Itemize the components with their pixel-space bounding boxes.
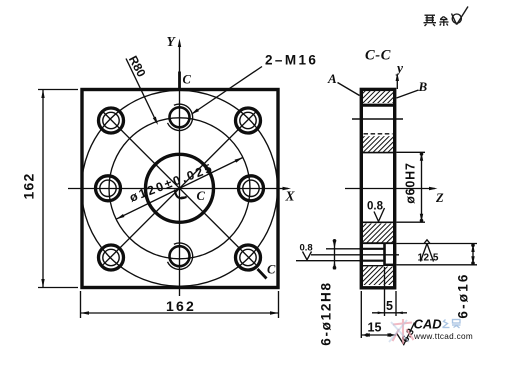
counterbore bottom edge [385, 264, 395, 266]
hanzi YU (余) [440, 17, 449, 27]
threaded hole M16 bottom [168, 243, 193, 269]
hanzi QI (其) [424, 15, 437, 26]
dimension 6-dia16: dimension line [472, 244, 474, 265]
watermark logo pink [393, 319, 414, 344]
diagonal centerline SW-NE [103, 112, 256, 265]
dimension 162 left: dimension line [42, 90, 44, 288]
leader R80 [126, 59, 157, 124]
M16 hole bottom thick line [361, 104, 395, 107]
svg-text:6-ø12H8: 6-ø12H8 [319, 281, 334, 345]
dimension dia60H7: extension lines [396, 151, 425, 153]
label B leader [397, 90, 419, 98]
X axis arrowhead [283, 187, 292, 190]
dimension dia60H7: dimension line [421, 152, 423, 222]
svg-text:C: C [267, 263, 276, 277]
svg-text:y: y [395, 61, 404, 76]
counterbored hole right [239, 176, 264, 201]
M16 hole centerline [352, 118, 403, 120]
watermark zhi-jia glyphs [443, 320, 461, 329]
hatch band bottom [363, 267, 393, 286]
hatch band top [363, 91, 393, 103]
hole dia12 edge extension line upper [326, 248, 361, 250]
hole dia12 edge extension line lower [296, 260, 361, 262]
label A leader [338, 83, 360, 96]
thread dashed line [364, 133, 393, 135]
svg-text:162: 162 [21, 173, 37, 200]
svg-text:0.8: 0.8 [367, 201, 384, 213]
plate outline square 162x162 [82, 90, 278, 288]
svg-text:5: 5 [386, 299, 393, 313]
svg-text:CAD: CAD [414, 317, 443, 332]
hole dia12 top edge [360, 248, 385, 250]
hatch boundary below hole [363, 265, 385, 267]
counterbore step vertical [383, 243, 386, 265]
dimension 15: dimension line [361, 334, 396, 336]
roughness 12.5 [424, 240, 430, 244]
roughness 6.3 rotated [397, 323, 415, 345]
svg-text:6-ø16: 6-ø16 [456, 272, 471, 318]
dimension 162 bottom: extension lines [80, 291, 82, 318]
counterbored hole bottom-right [236, 245, 261, 270]
counterbore top boundary [363, 242, 393, 244]
svg-text:X: X [285, 189, 296, 204]
svg-text:162: 162 [166, 298, 196, 314]
hole dia12 centerline [311, 254, 399, 256]
counterbored hole bottom-left [99, 245, 124, 270]
Y axis arrowhead [178, 39, 181, 48]
hatch band below bore [363, 224, 393, 243]
Z axis [345, 188, 435, 190]
bottom extension line step [384, 267, 386, 316]
circle dia 120 [109, 118, 250, 259]
threaded hole M16 top [168, 104, 193, 130]
hole dia12 bottom edge [360, 260, 385, 262]
y axis of section [396, 75, 398, 89]
svg-text:www.ttcad.com: www.ttcad.com [413, 332, 473, 341]
counterbored hole left [96, 176, 121, 201]
counterbored hole top-right [236, 108, 261, 133]
section turn curved arrow at center [175, 190, 187, 199]
bottom extension line left face [360, 291, 362, 338]
bore bottom edge [363, 221, 393, 223]
bolt circle R80 [82, 90, 278, 286]
bottom extension line right face [395, 291, 397, 316]
diagonal centerline NW-SE [103, 112, 256, 265]
roughness symbol circle-check [452, 7, 469, 25]
horizontal centerline / X axis [68, 188, 288, 190]
dimension 5: dimension line [372, 312, 407, 314]
bore top edge [363, 152, 393, 154]
svg-text:12.5: 12.5 [418, 253, 439, 264]
svg-text:B: B [418, 79, 428, 94]
section mark C top tick [178, 72, 181, 89]
vertical centerline / Y axis [179, 44, 181, 296]
leader 2-M16 [193, 67, 263, 114]
svg-text:ø60H7: ø60H7 [404, 162, 418, 204]
dimension 162 left: extension lines [38, 89, 78, 91]
dimension 6-dia16: extension lines [396, 243, 477, 245]
svg-text:C-C: C-C [365, 48, 391, 64]
section outline rectangle [361, 89, 394, 287]
dimension 6-dia12H8: dimension line [334, 240, 336, 269]
svg-text:C: C [197, 189, 206, 203]
section mark C bottom tick [258, 269, 267, 279]
watermark blue cross [389, 320, 409, 342]
svg-text:A: A [327, 71, 337, 86]
svg-text:15: 15 [368, 321, 382, 335]
svg-text:2–M16: 2–M16 [265, 53, 318, 68]
dimension dia120 diagonal line [116, 157, 243, 219]
svg-text:C: C [183, 73, 192, 87]
svg-text:Z: Z [435, 191, 444, 205]
dimension 162 bottom: dimension line [81, 312, 279, 314]
counterbored hole top-left [99, 108, 124, 133]
hatch band above bore [363, 136, 393, 152]
center bore dia 60 [146, 154, 214, 222]
